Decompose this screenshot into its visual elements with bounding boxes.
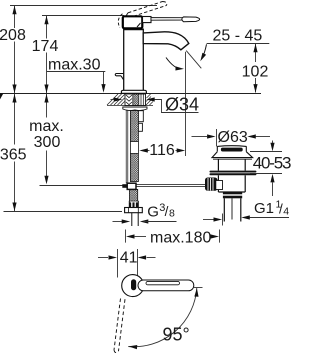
dimension 40-53 extension lines [250, 151, 282, 153]
lever handle boss [143, 17, 152, 23]
plug mushroom flare [212, 152, 253, 158]
arc arrow bottom [128, 344, 137, 349]
hose ferrule [129, 201, 139, 208]
supply hose lower braided section [130, 189, 138, 201]
dimension max.300 [46, 94, 48, 177]
dimension 102 [255, 44, 257, 93]
mounting shank in deck hole [125, 94, 146, 106]
dashed raised lever [126, 2, 167, 17]
pull rod coupling on hose [122, 183, 136, 189]
lever handle paddle tip [182, 17, 200, 22]
drain plug cap cylinder [217, 146, 246, 152]
pop-up drain: Ø63 dimension row [192, 136, 208, 138]
fixing nut side piece [138, 111, 143, 122]
drain basin flange (black) [210, 171, 257, 173]
svg-text:max.: max. [29, 118, 64, 135]
extension line max.300 ref / rod level [40, 185, 124, 187]
supply hose braided section upper [130, 111, 138, 142]
deck top line [0, 93, 261, 95]
top view: lever bar [138, 280, 194, 291]
svg-text:G1: G1 [254, 200, 274, 217]
supply hose braided section mid [130, 154, 138, 182]
svg-text:8: 8 [169, 207, 175, 219]
drain rod knob [205, 178, 223, 191]
svg-text:25 - 45: 25 - 45 [213, 28, 263, 45]
drain tailpipe G1 1/4 [224, 198, 241, 221]
extension line top 208 ref [10, 5, 157, 7]
extension line 365 ref [4, 211, 123, 213]
plug rim second line [213, 158, 252, 160]
svg-text:/: / [165, 204, 169, 219]
dimension 365 [14, 94, 16, 211]
base flange [121, 90, 146, 93]
dimension 116 row [148, 150, 150, 152]
lever head block [123, 16, 143, 28]
plug black seal band [221, 148, 243, 152]
pull rod to drain knob [136, 185, 209, 187]
deck left edge cap [0, 93, 3, 99]
svg-text:41: 41 [120, 249, 138, 266]
lever handle arm [151, 18, 183, 21]
dimension 174 [46, 16, 48, 94]
drain locknut [223, 192, 242, 198]
stream angle arc arrow left [166, 58, 181, 69]
extension line 174 ref [42, 15, 124, 17]
hose plain tube middle [130, 142, 138, 154]
washer below deck [123, 107, 147, 111]
pull rod vertical [126, 111, 128, 184]
dimension 41 [98, 257, 108, 259]
svg-text:300: 300 [34, 134, 61, 151]
spout [143, 32, 189, 50]
svg-text:Ø63: Ø63 [218, 129, 248, 146]
arc arrow top [194, 288, 199, 297]
dashed swing arc at head left [118, 14, 122, 28]
G3/8 connection nut [125, 208, 143, 213]
dimension 40-53 arrows [272, 141, 274, 144]
leader Ø34 [155, 100, 199, 113]
drain lower body [218, 175, 245, 192]
dimension max.180 [125, 230, 127, 243]
dimension G3/8 arrows [113, 221, 123, 223]
drain upper body [218, 159, 245, 170]
top view: lever inner detail [146, 281, 180, 284]
dashed rotated lever [114, 299, 125, 353]
stream vertical line [185, 52, 187, 156]
fixing nut lower step [138, 123, 142, 131]
svg-text:40-53: 40-53 [253, 153, 291, 172]
top view: reference line from lever tip [194, 287, 203, 289]
G3/8 tube end [132, 213, 138, 226]
svg-text:116: 116 [149, 142, 175, 159]
leader G1 1/4 [203, 219, 214, 221]
svg-text:max.30: max.30 [48, 57, 101, 74]
svg-text:G: G [147, 204, 159, 221]
faucet body column [124, 29, 144, 91]
plug stem inside tailpipe [231, 198, 233, 219]
label G1 1/4 [254, 199, 289, 218]
svg-text:Ø34: Ø34 [165, 94, 199, 114]
svg-text:max.180: max.180 [150, 229, 211, 246]
deck cross-section hatched band [107, 94, 153, 106]
pull-rod knob on body left [115, 74, 123, 81]
stream angle arc arrow right [202, 44, 207, 58]
top view: body circle [122, 275, 144, 297]
svg-text:208: 208 [0, 27, 26, 44]
svg-text:95°: 95° [163, 325, 190, 345]
svg-text:174: 174 [32, 38, 59, 55]
svg-text:4: 4 [283, 205, 289, 217]
svg-text:365: 365 [0, 147, 27, 164]
svg-text:102: 102 [242, 64, 269, 81]
dimension Ø34 arrows at shank [111, 99, 116, 101]
label G 3/8 [147, 202, 175, 221]
95° swing arc [128, 288, 197, 347]
stream diagonal line [186, 51, 201, 69]
top view: black pill mark [131, 279, 136, 290]
pivot tick inside head [137, 23, 141, 27]
dimension 208 [14, 6, 16, 94]
leader max.30 down arrow [103, 72, 105, 86]
